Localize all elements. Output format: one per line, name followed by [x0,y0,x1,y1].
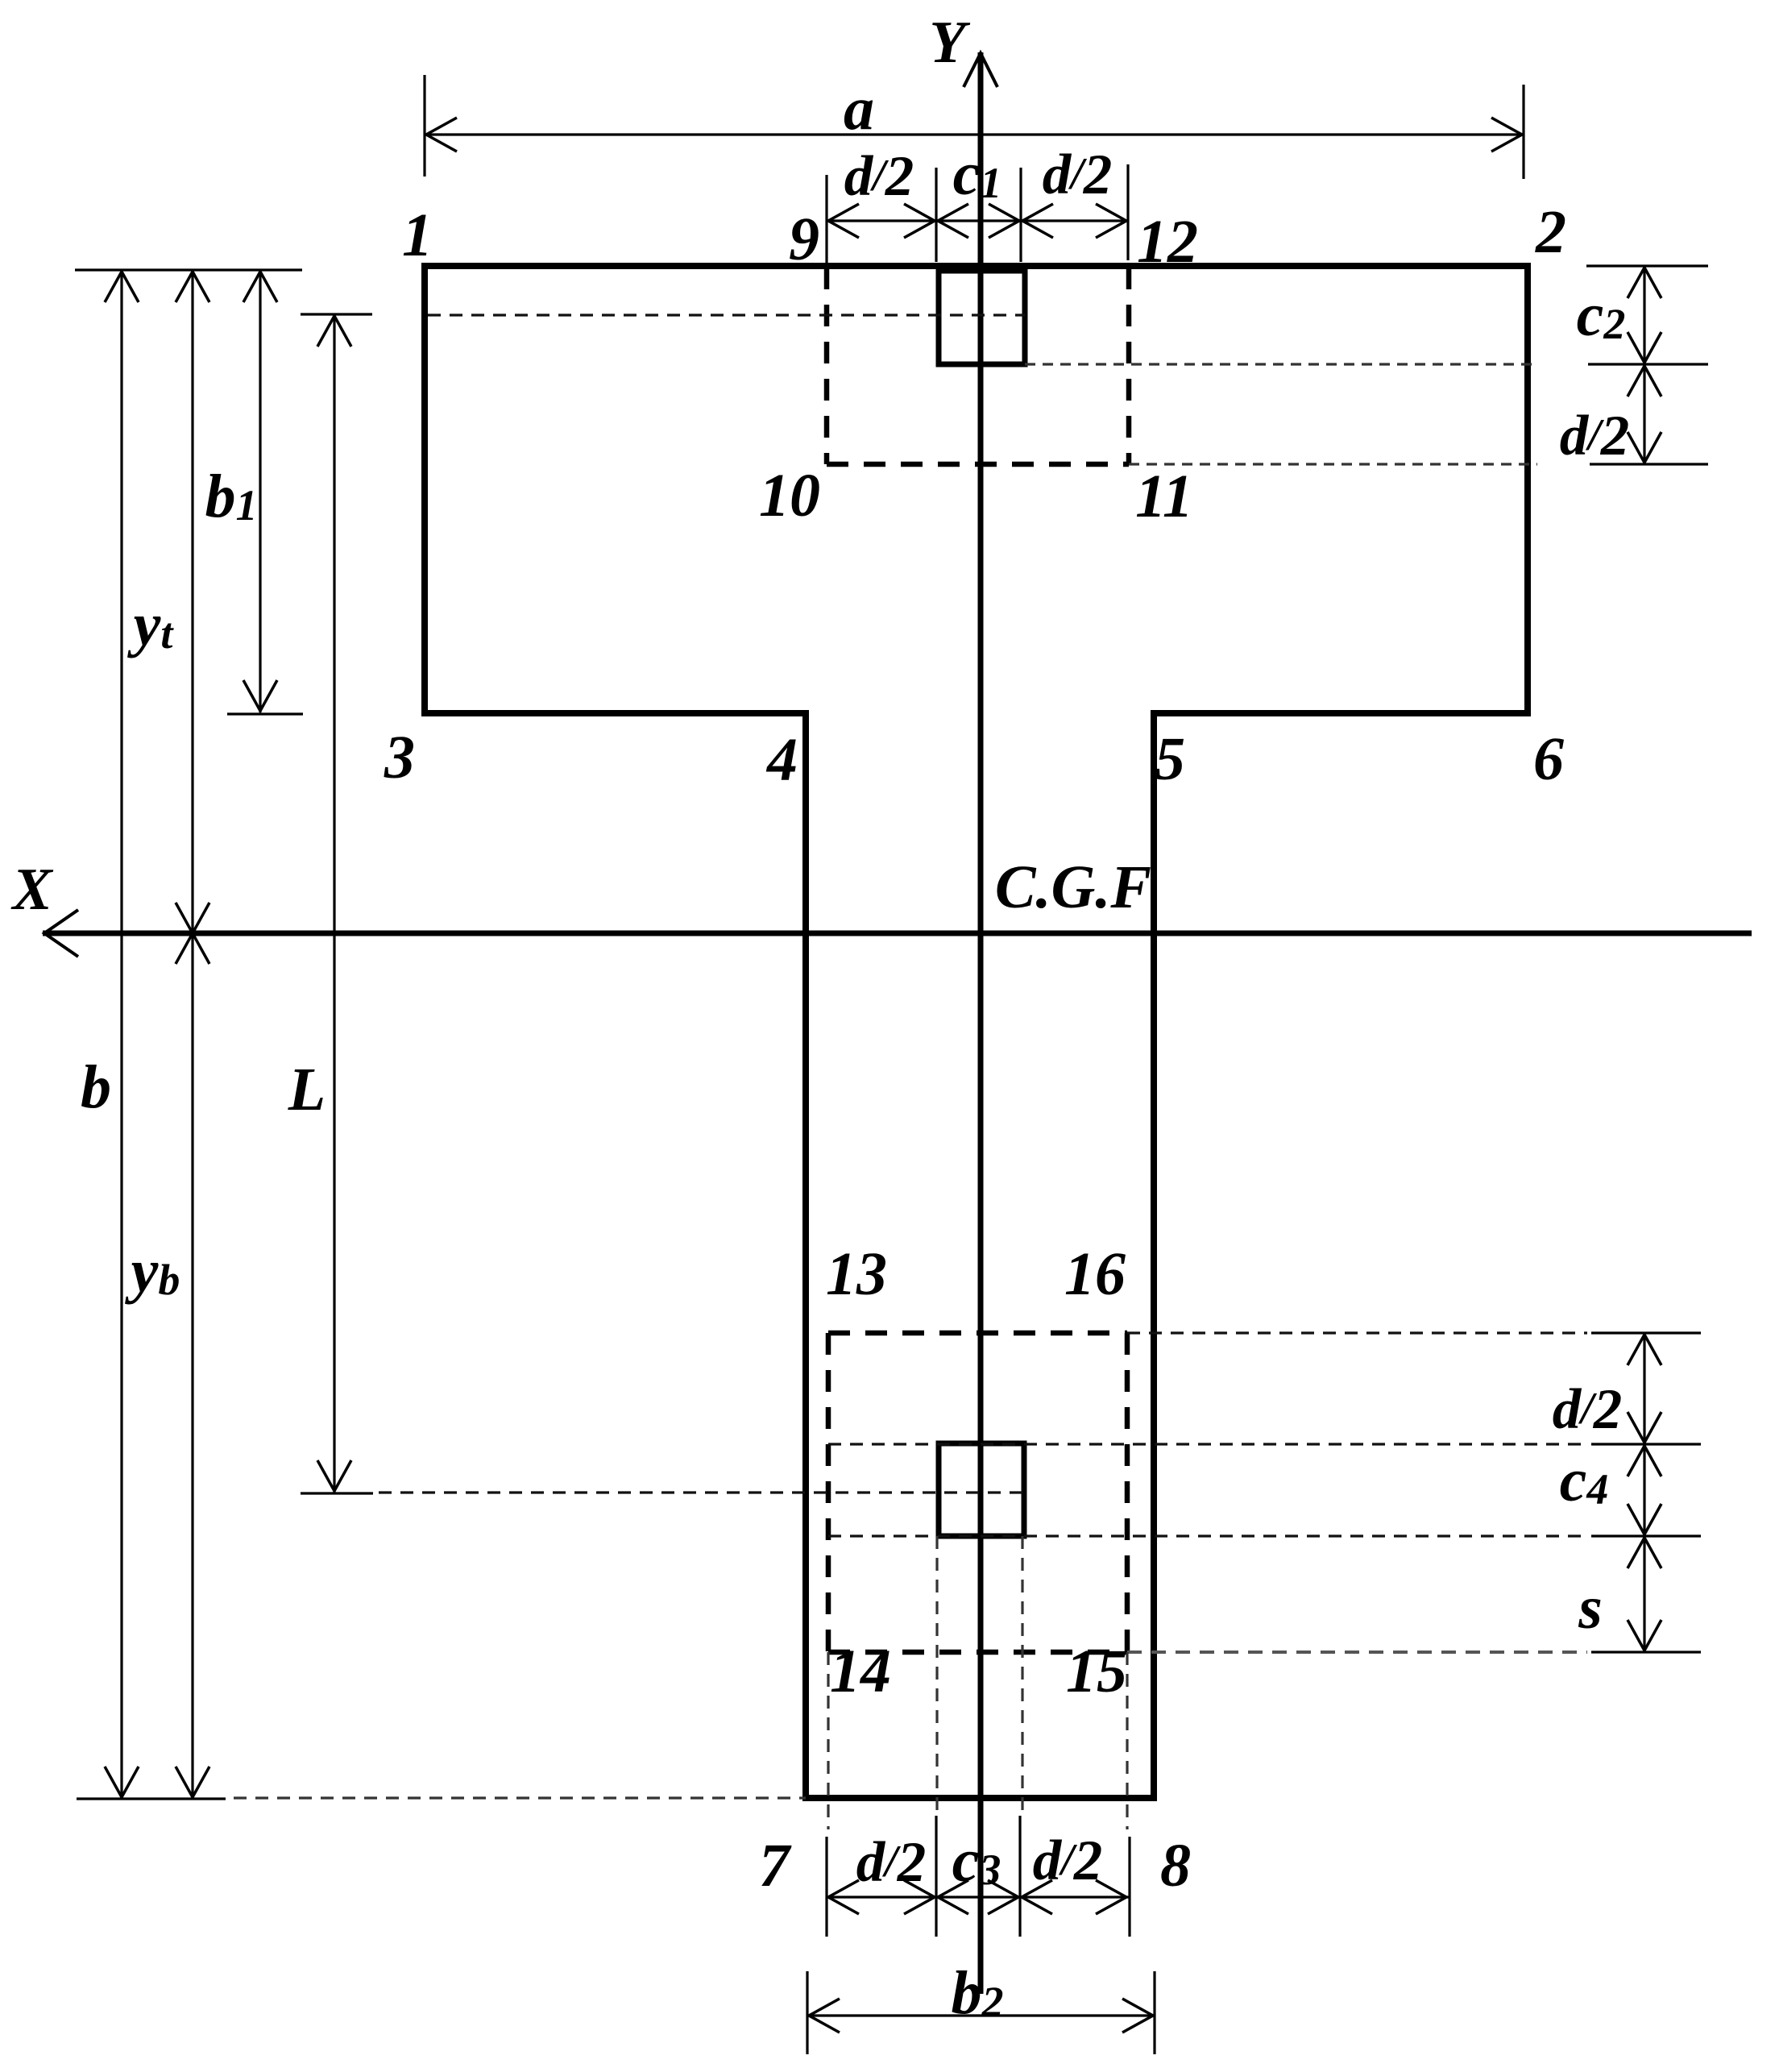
extension line web bottom to left [234,1796,806,1799]
dashed drop line below box13 right [1126,1652,1128,1829]
svg-text:11: 11 [1135,463,1193,530]
extension line at 10-11 level to right [1129,463,1537,465]
dashed drop line below bottom hole left [935,1536,938,1817]
svg-text:X: X [10,857,53,923]
svg-text:14: 14 [830,1638,891,1705]
dimension b1 line [243,270,277,712]
svg-text:Y: Y [929,10,970,76]
centerline of bottom hole [379,1491,1024,1493]
svg-text:1: 1 [402,201,433,269]
X axis [43,910,1752,957]
right dimension d/2 c4 s: ticks [1591,1333,1701,1652]
right dimension c2 d/2: ticks [1586,266,1708,464]
svg-text:6: 6 [1533,725,1564,793]
extension line at box13 bottom to right [1127,1651,1587,1654]
svg-text:3: 3 [384,724,415,791]
left dimension ticks top [75,270,373,1799]
svg-text:d/2: d/2 [1033,1829,1103,1892]
Y axis [964,52,997,1994]
svg-text:8: 8 [1160,1832,1191,1900]
dashed drop line below bottom hole right [1021,1536,1023,1817]
dimension L line [317,314,351,1493]
extension line at top hole bottom to right [1025,363,1537,365]
svg-text:10: 10 [759,462,820,529]
dashed box 9-10-11-12 bottom edge [827,462,1129,467]
extension line at bottom hole top [828,1443,1587,1445]
dashed box 13-14-15-16 right edge [1125,1333,1130,1652]
dimension chain d/2 c1 d/2 top: ticks [827,164,1128,266]
svg-text:d/2: d/2 [1043,143,1113,206]
svg-text:L: L [288,1056,326,1123]
dashed box 9-10-11-12 right edge [1126,268,1132,464]
svg-text:13: 13 [826,1240,887,1308]
centerline of top hole [428,313,1025,316]
bottom hole rectangle c3/c4 [939,1443,1024,1536]
svg-text:4: 4 [765,726,798,794]
svg-text:5: 5 [1155,725,1185,793]
top hole rectangle c1/c2 [939,271,1025,364]
svg-text:s: s [1578,1574,1603,1642]
svg-text:d/2: d/2 [1553,1378,1623,1441]
bottom dimension chain d/2 c3 d/2: ticks [827,1816,1130,1937]
dashed box 13-14-15-16 bottom edge [828,1650,1127,1655]
svg-text:16: 16 [1064,1240,1126,1308]
svg-text:15: 15 [1066,1638,1127,1705]
dimension a: line [425,75,1524,179]
svg-text:12: 12 [1137,208,1198,276]
dashed drop line below box13 left [827,1652,829,1829]
svg-text:7: 7 [759,1832,792,1900]
dimension yt/yb line [176,270,209,1799]
extension line at bottom hole bottom [828,1534,1587,1537]
svg-text:b: b [81,1053,111,1121]
dashed box 13-14-15-16 left edge [826,1333,831,1652]
svg-text:a: a [844,75,874,143]
svg-text:9: 9 [789,206,819,273]
svg-text:d/2: d/2 [1560,405,1630,467]
svg-text:2: 2 [1535,198,1566,266]
dimension b2 [807,1971,1155,2054]
dimension b line [105,270,139,1799]
T-section outline [425,266,1528,1798]
svg-text:C.G.F: C.G.F [995,853,1151,921]
svg-text:d/2: d/2 [856,1831,927,1894]
svg-text:d/2: d/2 [844,145,914,208]
dashed box 9-10-11-12 left edge [824,268,830,464]
extension line at box13 top to right [1127,1331,1587,1334]
dashed box 13-14-15-16 top edge [828,1331,1127,1336]
